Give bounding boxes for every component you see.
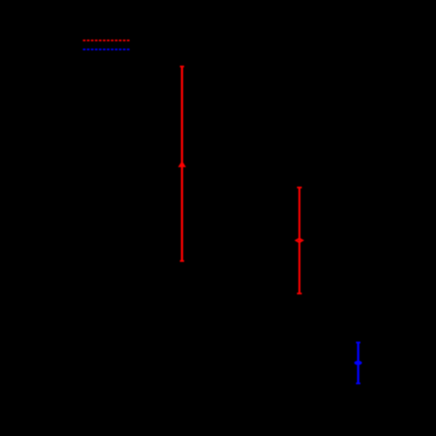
error bar 3 marker: filled ellipse <box>354 361 362 365</box>
error bar 1 marker: filled triangle <box>178 161 186 167</box>
error bar 2 marker: open diamond <box>296 239 303 243</box>
error bar 1 vertical line (red) <box>181 67 183 262</box>
error bar 2 top cap <box>297 187 302 189</box>
error bar 3 bottom cap <box>356 382 360 384</box>
legend dashed line red <box>83 39 130 41</box>
error bar 1 bottom cap <box>180 260 184 262</box>
error bar 1 top cap <box>180 66 184 68</box>
error bar 3 top cap <box>356 342 360 344</box>
error bar 2 bottom cap <box>297 293 302 295</box>
legend dashed line blue <box>83 48 130 50</box>
error bar 3 vertical line (blue) <box>357 343 359 384</box>
error bar 2 vertical line (red) <box>298 188 300 294</box>
